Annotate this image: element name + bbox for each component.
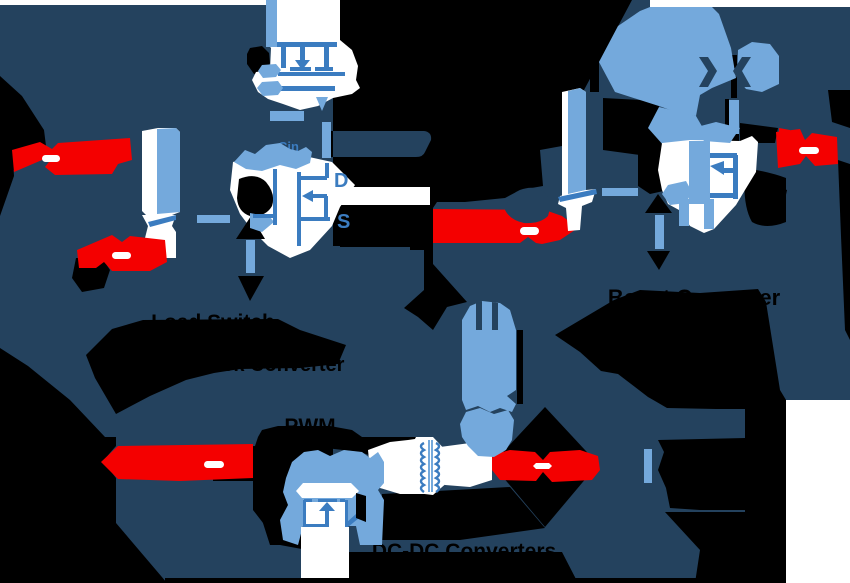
mosfet Q3 arrow: [710, 161, 724, 175]
navy thick band (node bar): [333, 131, 431, 157]
red arrow 2 (left, second): [77, 235, 167, 271]
white cloud right mosfet: [658, 136, 758, 233]
blue dashes: [304, 499, 312, 502]
black big region top center-right: [331, 0, 632, 246]
white dash in red arrow R: [799, 147, 819, 154]
white dash in red arrow 4: [204, 461, 224, 468]
black strip right of big blue arrow + boost blob left arm: [517, 330, 523, 404]
primary winding: [421, 443, 424, 492]
black arrowheads right column: [645, 194, 672, 213]
black diamond behind red5: [492, 407, 598, 527]
black lower-left triangle: [0, 348, 167, 583]
small lightblue arrow right lobe: [737, 42, 779, 92]
core lines: [428, 440, 430, 492]
lightblue mountain above center mosfet: [234, 143, 312, 171]
blue diagonal in right elbow: [558, 189, 597, 202]
svg-text:D: D: [334, 170, 348, 192]
black band + arrow from red3 down to blue arrow: [340, 230, 433, 247]
mosfet Q1 gate line: [278, 72, 345, 76]
svg-text:S: S: [337, 211, 350, 233]
blue stub down: [322, 122, 331, 158]
mosfet Q3 source line: [710, 193, 737, 198]
black blob top-left corner (PV text area): [0, 76, 46, 172]
white dash in red arrow 3: [520, 227, 539, 235]
white dash in red arrow 1: [42, 155, 60, 162]
lightblue lower blob top-right: [648, 107, 711, 148]
white box bottom right: [786, 400, 850, 583]
black sliver left edge under red arrow 1: [0, 146, 14, 216]
blue bar under cloud: [270, 111, 304, 121]
blue diagonal in elbow: [148, 215, 176, 227]
blue supply stub top: [266, 0, 277, 47]
svg-text:Boost Converter: Boost Converter: [608, 285, 781, 310]
big lightblue arrow left lobe: [599, 7, 736, 116]
white diamond transformer: [408, 437, 450, 495]
wire elbow white boot: [142, 215, 176, 258]
elbow white: [558, 189, 596, 231]
white D/S band: [330, 187, 430, 205]
black left of right mosfet: [638, 130, 668, 194]
black strip left of blue bar: [725, 99, 729, 133]
mosfet Q1 body-diode arrow: [300, 47, 305, 60]
white column below icon: [301, 527, 349, 578]
black kidney right of right mosfet: [744, 168, 786, 226]
lightblue legs: [679, 199, 689, 226]
black under top-right blue arrow: [603, 98, 662, 155]
red arrow R (right edge): [776, 129, 838, 168]
black bottom strip: [550, 578, 786, 583]
lightblue hexagon left: [662, 181, 692, 205]
black left pocket of converter icon: [262, 498, 290, 545]
mosfet Q2 gate left bar: [253, 214, 275, 218]
lower lobe of big arrow: [460, 408, 514, 457]
black up arrowhead center: [236, 216, 265, 239]
red arrow body: [12, 138, 132, 175]
Boost Converter big blob: [555, 289, 786, 409]
wire pipe left (white+blue vertical, L-bend): [142, 128, 180, 215]
black pocket right of icon: [356, 493, 366, 522]
svg-text:Buck Converter: Buck Converter: [196, 354, 345, 376]
blue up arrow in icon: [319, 502, 335, 511]
mosfet Q3 drain line: [710, 153, 737, 158]
mosfet Q2 channel bar: [297, 172, 301, 246]
source terminal hex: [257, 81, 283, 96]
svg-text:DC-DC Converters: DC-DC Converters: [372, 540, 556, 563]
black battery blob: [658, 438, 745, 510]
wire dash right: [602, 188, 638, 196]
black bottom-left of red3 tail: [410, 206, 433, 250]
white area around transformer: [368, 437, 452, 494]
black bottom band with DC-DC text silhouette: [318, 552, 578, 583]
mosfet Q2 arrow (points left): [302, 190, 313, 202]
black gap in top-right arrow: [731, 55, 737, 98]
mosfet Q1 channel bars: [290, 67, 311, 71]
wire dash center-left: [197, 215, 230, 223]
mosfet Q1 left leg: [281, 47, 286, 68]
blue shaft center double arrow: [246, 240, 255, 273]
navy stripes inside top of big arrow: [476, 301, 482, 330]
mosfet Q2 drain line: [301, 176, 327, 180]
mosfet Q1 source line: [277, 86, 335, 91]
black top-right corner: [828, 90, 850, 128]
blue bracket: [303, 500, 306, 527]
white diamond cloud center mosfet: [230, 155, 355, 258]
black circle blob left of center mosfet: [237, 176, 273, 216]
lightblue platform wedge: [250, 213, 274, 232]
black left of red arrow R: [770, 184, 787, 218]
black strip left edge of top-right arrow: [590, 8, 599, 92]
top white strip: [0, 0, 340, 5]
white dash in red arrow 2: [112, 252, 131, 259]
gate terminal hex: [258, 64, 281, 78]
black around bottom-center: above blue blob and left of transformer: [258, 437, 420, 460]
red arrow 5 (bottom center bowtie): [492, 450, 600, 482]
navy blob over red3 top: [505, 188, 550, 223]
black right column above white box: [745, 409, 786, 583]
blue shaft right double arrow: [655, 215, 664, 249]
secondary winding: [436, 443, 439, 492]
black bottom right of top-right assembly: [740, 123, 778, 143]
red arrow 4 (bottom left, pointing left): [101, 444, 253, 481]
white hexagon band: [296, 483, 359, 498]
svg-text:Load Switch: Load Switch: [151, 311, 275, 334]
white cloud top mosfet: [252, 0, 360, 110]
lightblue blob converter: [280, 450, 384, 545]
black below transformer area: [382, 487, 545, 540]
small down triangle under mosfet: [316, 97, 328, 111]
lightblue chevron top: [693, 122, 740, 143]
black blob left of top mosfet: [247, 46, 270, 74]
white rect below: [303, 502, 347, 527]
white blob right of transformer: [436, 443, 492, 487]
black right edge below red arrow R: [838, 160, 850, 340]
mosfet Q1 drain bus: [277, 42, 337, 47]
navy chevrons inside arrows: [699, 57, 717, 87]
red arrow 3 (center): [433, 209, 578, 244]
lightblue wide bar: [689, 141, 710, 204]
black bottom right area: [665, 512, 786, 583]
mosfet Q2 gate bar: [273, 169, 277, 225]
red sliver top right corner piece: [779, 128, 790, 146]
Load-Switch / Buck text blob (big wedge): [86, 319, 346, 414]
mosfet Q2 source line: [301, 217, 330, 221]
blue bar below arrows: [729, 100, 739, 134]
black down arrowhead center: [238, 276, 264, 301]
white dash in red arrow 5: [533, 463, 552, 469]
mosfet Q1 right leg: [324, 44, 329, 68]
black blob under red arrow 2: [72, 258, 110, 292]
small blue bar right of red5: [644, 449, 652, 483]
